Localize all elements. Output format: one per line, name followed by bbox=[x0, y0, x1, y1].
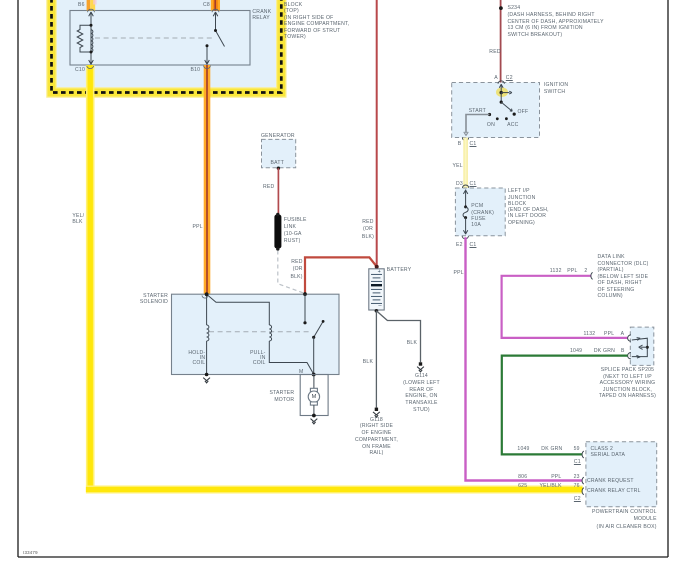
wire 1132 PPL DLC pin 2 to splice pack pin A bbox=[502, 276, 628, 338]
crank relay box bbox=[70, 11, 250, 66]
powertrain control module box bbox=[586, 442, 657, 507]
label STARTER SOLENOID bbox=[123, 293, 168, 306]
wire BLK battery to G118 bbox=[375, 311, 377, 408]
label battery plus bbox=[378, 269, 381, 276]
label ground G118 text bbox=[341, 417, 412, 458]
ignition switch rotor highlight (yellow) bbox=[496, 87, 508, 97]
label ground G114 text bbox=[386, 373, 457, 414]
relay coil (with parallel resistor), terminals B6/C10 bbox=[77, 12, 93, 64]
label 806 PPL 23 bbox=[518, 474, 527, 481]
label POWERTRAIN CONTROL MODULE text bbox=[537, 509, 657, 531]
wire 625 YEL/BLK (highlighted yellow) from C10 down and right to PCM pin 76 bbox=[86, 65, 583, 494]
label splice S234 text bbox=[508, 5, 521, 12]
node solenoid S-terminal junction bbox=[303, 292, 307, 296]
relay switch, terminals C8/B10 bbox=[205, 12, 225, 64]
node M terminal bbox=[312, 373, 316, 377]
label RED (generator lead) bbox=[263, 184, 274, 191]
label BLK (right, to G114) bbox=[407, 340, 417, 347]
wire BLK battery to G114 bbox=[376, 311, 420, 363]
label junction block terminal E2 bbox=[456, 242, 463, 249]
underhood fuse block (highlighted dashed boundary, cut off at top) bbox=[52, 0, 282, 93]
label starter motor M bbox=[312, 394, 317, 401]
ignition switch internals bbox=[488, 84, 516, 120]
ground G118 bbox=[373, 408, 380, 418]
label YEL/BLK bbox=[72, 213, 84, 226]
starter solenoid box bbox=[172, 294, 340, 374]
ground at solenoid case bbox=[203, 378, 210, 383]
label 1132 PPL A bbox=[584, 331, 596, 338]
label ACC bbox=[507, 122, 518, 129]
connector at PCM pin 59 bbox=[582, 451, 584, 458]
solenoid pull-in coil fed by diagonal branch bbox=[207, 294, 314, 374]
label crank relay terminal C10 bbox=[75, 67, 85, 74]
label CRANK REQUEST bbox=[587, 478, 634, 485]
label CLASS 2 SERIAL DATA bbox=[591, 446, 626, 459]
connector at DLC pin 2 bbox=[591, 272, 593, 279]
label RED (OR BLK) near solenoid bbox=[273, 259, 303, 280]
connector at PCM pin 76 bbox=[582, 488, 584, 495]
wire ignition START contact to B terminal exit bbox=[464, 115, 490, 136]
label junction block terminal D3 bbox=[456, 181, 463, 188]
connector A/C2 at ignition switch bbox=[498, 81, 504, 84]
label ON bbox=[487, 122, 495, 129]
label 625 YEL/BLK 76 bbox=[518, 483, 527, 490]
label STARTER MOTOR bbox=[249, 390, 294, 403]
terminal cup C10 bbox=[87, 66, 94, 69]
ignition switch box bbox=[452, 83, 540, 138]
wire RED (OR BLK) vertical from top of page to battery + bbox=[376, 0, 378, 267]
label SPLICE PACK SP205 text bbox=[592, 367, 663, 400]
generator box bbox=[262, 139, 296, 170]
label underhood fuse block text bbox=[284, 2, 349, 41]
label crank relay terminal B6 bbox=[78, 2, 85, 9]
connector B/C1 at ignition switch bbox=[462, 138, 468, 141]
label crank relay terminal C8 bbox=[203, 2, 210, 9]
connector at splice pack pin B bbox=[628, 353, 631, 359]
splice S234 bbox=[499, 6, 503, 10]
label RED (OR BLK) near battery feed bbox=[353, 219, 383, 240]
label BATTERY bbox=[387, 267, 412, 274]
node battery - junction bbox=[375, 309, 379, 313]
wire RED generator BATT to fusible link bbox=[277, 168, 279, 214]
fusible link (10-GA rust) bbox=[274, 213, 281, 251]
wire 806 PPL junction block E2 down and right to PCM pin 23 bbox=[466, 237, 583, 480]
terminal cup C8 bbox=[212, 9, 219, 12]
wire YEL (highlighted) ignition B to junction block D3 bbox=[463, 138, 468, 189]
label ignition terminal C2 bbox=[506, 75, 513, 82]
label START bbox=[469, 108, 486, 115]
label YEL/BLK bbox=[0, 0, 1, 1]
label YEL bbox=[453, 163, 463, 170]
label figure number I33479 bbox=[23, 550, 38, 557]
PCM (CRANK) fuse 10A bbox=[463, 190, 468, 235]
label junction block terminal C1 (top) bbox=[470, 181, 477, 188]
starter motor case loop bbox=[300, 375, 328, 416]
node battery + junction bbox=[375, 265, 379, 269]
label 1049 DK GRN B bbox=[570, 348, 582, 355]
wire PPL (highlighted orange w/ red core) from B10 down to starter solenoid bbox=[204, 65, 211, 294]
label CRANK RELAY bbox=[252, 9, 271, 22]
label ignition terminal A bbox=[494, 75, 498, 82]
connector at PCM pin 23 bbox=[582, 477, 584, 484]
wire 1049 DK GRN splice pack pin B to PCM pin 59 bbox=[502, 356, 628, 455]
label BLK (left, to G118) bbox=[363, 359, 373, 366]
battery bbox=[369, 269, 384, 310]
label M terminal bbox=[299, 369, 303, 376]
terminal cup B6 bbox=[88, 9, 95, 12]
wire B6 (yellow/orange highlighted, from top edge) bbox=[87, 0, 97, 11]
label S234 location text bbox=[508, 12, 604, 38]
node starter motor ground junction bbox=[312, 414, 316, 418]
node solenoid ground terminal bbox=[205, 373, 209, 377]
label battery minus bbox=[378, 303, 381, 310]
label PCM (CRANK) FUSE 10A bbox=[471, 203, 494, 228]
relay mechanical linkage (dashed) bbox=[95, 37, 212, 39]
label PPL (wire 806) bbox=[454, 270, 464, 277]
connector E2/C1 at junction block bbox=[462, 236, 468, 239]
label PCM connector C1 bbox=[574, 459, 581, 466]
wire RED (OR BLK) branch from battery + to solenoid switch bbox=[305, 257, 377, 293]
solenoid hold-in coil bbox=[205, 292, 209, 374]
label ignition terminal C1 bbox=[470, 141, 477, 148]
label OFF bbox=[518, 109, 529, 116]
label PULL-IN COIL bbox=[236, 351, 266, 367]
starter motor bbox=[308, 375, 319, 416]
label 1049 DK GRN 59 bbox=[517, 446, 529, 453]
label PPL (solenoid feed) bbox=[193, 224, 203, 231]
label RED (ignition feed) bbox=[489, 49, 500, 56]
connector at splice pack pin A bbox=[628, 335, 631, 341]
splice pack internal bus bbox=[632, 338, 649, 358]
label FUSIBLE LINK (10-GA RUST) bbox=[284, 217, 307, 246]
label junction block terminal C1 (bottom) bbox=[470, 242, 477, 249]
connector D3/C1 at junction block bbox=[462, 185, 468, 188]
label CRANK RELAY CTRL bbox=[587, 488, 641, 495]
label LEFT I/P JUNCTION BLOCK text bbox=[508, 188, 549, 226]
wire C8 (RED highlighted orange, from top edge) bbox=[211, 0, 220, 11]
solenoid mechanical linkage (dashed) bbox=[209, 331, 312, 333]
ground at starter motor bbox=[311, 419, 318, 424]
solenoid contact switch bbox=[303, 292, 324, 374]
terminal cup solenoid feed bbox=[202, 295, 208, 298]
label BATT bbox=[271, 160, 285, 167]
splice pack SP205 box bbox=[630, 327, 654, 365]
wire RED (OR BLK) alternate path (dashed, unhighlighted) from fusible link to solenoid junction bbox=[278, 251, 305, 294]
label crank relay terminal B10 bbox=[191, 67, 201, 74]
wire RED from splice S234 down to ignition switch A/C2 bbox=[500, 0, 502, 83]
label HOLD-IN COIL bbox=[175, 351, 205, 367]
left I/P junction block box bbox=[455, 188, 505, 236]
label DATA LINK CONNECTOR text bbox=[598, 254, 649, 300]
ground G114 bbox=[417, 362, 424, 372]
label ignition terminal B bbox=[458, 141, 462, 148]
label IGNITION SWITCH bbox=[544, 82, 568, 95]
terminal cup B10 bbox=[204, 66, 211, 69]
label 1132 PPL 2 bbox=[550, 268, 562, 275]
label PCM connector C2 bbox=[574, 496, 581, 503]
label GENERATOR bbox=[261, 133, 295, 140]
